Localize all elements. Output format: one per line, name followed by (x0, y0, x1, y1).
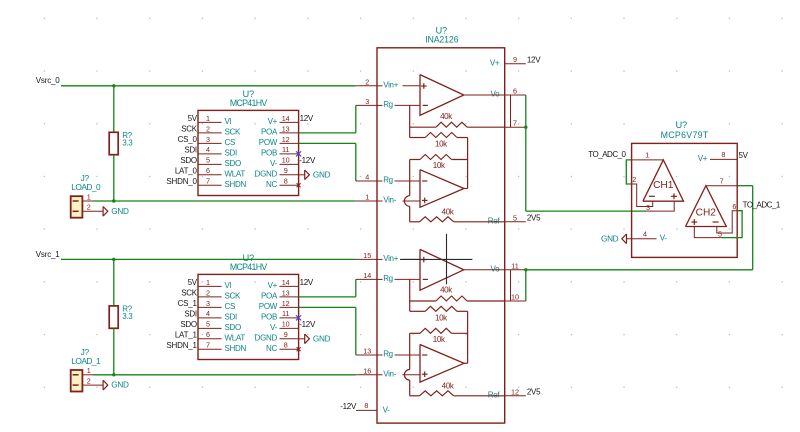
svg-text:4: 4 (643, 229, 647, 238)
svg-text:7: 7 (513, 119, 517, 128)
svg-text:4: 4 (365, 173, 369, 182)
svg-text:40k: 40k (440, 286, 453, 295)
svg-text:GND: GND (313, 170, 331, 179)
svg-text:12: 12 (282, 299, 290, 308)
svg-text:CH1: CH1 (653, 180, 674, 191)
svg-text:DGND: DGND (255, 333, 278, 342)
svg-text:LOAD_0: LOAD_0 (71, 182, 101, 192)
svg-text:TO_ADC_1: TO_ADC_1 (743, 201, 781, 210)
svg-text:SDI: SDI (225, 312, 238, 321)
svg-text:40k: 40k (440, 112, 453, 121)
svg-text:CH2: CH2 (696, 207, 717, 218)
svg-text:6: 6 (206, 166, 210, 175)
svg-text:7: 7 (206, 341, 210, 350)
svg-text:Rg: Rg (383, 176, 393, 185)
svg-text:V-: V- (660, 233, 668, 242)
svg-text:WLAT: WLAT (225, 169, 246, 178)
svg-text:1: 1 (365, 193, 369, 202)
svg-text:GND: GND (313, 334, 331, 343)
svg-text:12V: 12V (300, 278, 314, 287)
svg-text:40k: 40k (442, 207, 455, 216)
svg-text:POB: POB (261, 148, 277, 157)
svg-text:NC: NC (266, 344, 277, 353)
svg-text:SCK: SCK (225, 291, 242, 300)
svg-text:7: 7 (206, 177, 210, 186)
svg-text:11: 11 (282, 145, 289, 154)
svg-text:POA: POA (261, 127, 278, 136)
svg-text:2: 2 (87, 377, 91, 386)
svg-text:LOAD_1: LOAD_1 (71, 356, 101, 366)
svg-text:MCP41HV: MCP41HV (230, 98, 267, 108)
svg-text:V+: V+ (490, 58, 500, 67)
svg-text:NC: NC (266, 180, 277, 189)
svg-text:3: 3 (646, 203, 650, 212)
svg-text:14: 14 (282, 114, 290, 123)
svg-text:SHDN: SHDN (225, 344, 247, 353)
svg-text:12V: 12V (527, 56, 541, 65)
svg-text:V+: V+ (698, 154, 708, 163)
svg-text:SHDN_0: SHDN_0 (166, 177, 197, 186)
svg-text:Vo: Vo (491, 90, 501, 99)
svg-text:SDI: SDI (184, 310, 197, 319)
svg-text:3: 3 (365, 97, 369, 106)
svg-text:V+: V+ (268, 117, 278, 126)
svg-text:7: 7 (720, 176, 724, 185)
svg-text:POB: POB (261, 312, 277, 321)
svg-text:WLAT: WLAT (225, 333, 246, 342)
svg-text:12V: 12V (300, 114, 314, 123)
svg-text:10: 10 (282, 320, 290, 329)
svg-text:TO_ADC_0: TO_ADC_0 (588, 150, 626, 159)
svg-text:CS: CS (225, 138, 236, 147)
svg-text:10: 10 (282, 156, 290, 165)
svg-text:Ref: Ref (488, 216, 501, 225)
svg-text:-12V: -12V (299, 156, 316, 165)
svg-text:13: 13 (282, 288, 290, 297)
svg-text:LAT_0: LAT_0 (175, 166, 198, 175)
svg-text:SDO: SDO (180, 156, 197, 165)
svg-text:1: 1 (645, 150, 649, 159)
svg-text:2V5: 2V5 (527, 214, 541, 223)
svg-text:CS: CS (225, 302, 236, 311)
svg-text:DGND: DGND (255, 169, 278, 178)
svg-text:Vin-: Vin- (383, 369, 397, 378)
svg-text:11: 11 (282, 309, 289, 318)
svg-text:Vo: Vo (491, 264, 501, 273)
svg-text:U?: U? (675, 120, 687, 130)
svg-text:15: 15 (363, 251, 371, 260)
svg-text:V-: V- (270, 159, 278, 168)
svg-text:Vin+: Vin+ (383, 80, 399, 89)
svg-text:GND: GND (601, 234, 619, 243)
svg-text:GND: GND (111, 207, 129, 216)
svg-text:14: 14 (282, 278, 290, 287)
svg-text:Ref: Ref (488, 390, 501, 399)
svg-text:14: 14 (363, 271, 371, 280)
svg-text:2: 2 (206, 288, 210, 297)
svg-text:3: 3 (206, 299, 210, 308)
svg-text:SCK: SCK (181, 125, 198, 134)
svg-text:2V5: 2V5 (527, 388, 541, 397)
svg-text:10k: 10k (435, 140, 448, 149)
svg-text:4: 4 (206, 145, 210, 154)
svg-text:6: 6 (206, 330, 210, 339)
svg-text:13: 13 (363, 347, 371, 356)
svg-text:1: 1 (87, 366, 91, 375)
svg-text:5V: 5V (188, 114, 198, 123)
svg-text:5: 5 (513, 213, 517, 222)
svg-text:8: 8 (364, 401, 368, 410)
svg-text:-12V: -12V (299, 320, 316, 329)
svg-text:SCK: SCK (225, 127, 242, 136)
svg-text:SDO: SDO (180, 320, 197, 329)
svg-text:CS_0: CS_0 (178, 135, 198, 144)
svg-text:1: 1 (87, 192, 91, 201)
svg-text:INA2126: INA2126 (425, 34, 458, 44)
svg-text:13: 13 (282, 124, 290, 133)
svg-text:3.3: 3.3 (122, 312, 133, 321)
svg-text:3: 3 (206, 135, 210, 144)
svg-text:6: 6 (513, 87, 517, 96)
svg-text:5: 5 (206, 156, 210, 165)
svg-text:12: 12 (511, 387, 519, 396)
svg-text:12: 12 (282, 135, 290, 144)
svg-text:1: 1 (206, 114, 210, 123)
svg-text:5: 5 (206, 320, 210, 329)
svg-text:1: 1 (206, 278, 210, 287)
svg-text:Vsrc_0: Vsrc_0 (36, 76, 60, 85)
svg-text:3.3: 3.3 (122, 138, 133, 147)
svg-text:CS_1: CS_1 (178, 299, 198, 308)
svg-text:SCK: SCK (181, 289, 198, 298)
svg-text:16: 16 (363, 366, 371, 375)
svg-text:POW: POW (259, 138, 278, 147)
svg-text:2: 2 (206, 124, 210, 133)
svg-text:10: 10 (511, 293, 519, 302)
svg-text:Vsrc_1: Vsrc_1 (36, 250, 60, 259)
svg-text:MCP6V79T: MCP6V79T (661, 130, 709, 140)
svg-text:SDI: SDI (184, 146, 197, 155)
svg-text:POA: POA (261, 291, 278, 300)
svg-text:Vin-: Vin- (383, 196, 397, 205)
svg-text:5: 5 (718, 229, 722, 238)
svg-text:9: 9 (513, 55, 517, 64)
svg-text:6: 6 (732, 202, 736, 211)
svg-text:MCP41HV: MCP41HV (230, 262, 267, 272)
svg-text:2: 2 (632, 175, 636, 184)
svg-text:POW: POW (259, 302, 278, 311)
svg-text:V-: V- (383, 406, 391, 415)
svg-text:8: 8 (284, 341, 288, 350)
svg-text:SDO: SDO (225, 159, 242, 168)
svg-text:9: 9 (284, 330, 288, 339)
svg-text:Rg: Rg (383, 100, 393, 109)
svg-text:2: 2 (365, 77, 369, 86)
svg-text:GND: GND (111, 381, 129, 390)
svg-text:Vl: Vl (225, 117, 232, 126)
svg-text:V-: V- (270, 323, 278, 332)
svg-text:10k: 10k (433, 161, 446, 170)
svg-text:4: 4 (206, 309, 210, 318)
svg-text:Vl: Vl (225, 281, 232, 290)
svg-text:8: 8 (721, 150, 725, 159)
svg-text:Vin+: Vin+ (383, 254, 399, 263)
svg-text:2: 2 (87, 203, 91, 212)
svg-text:5V: 5V (188, 278, 198, 287)
svg-text:10k: 10k (435, 313, 448, 322)
svg-text:11: 11 (511, 261, 518, 270)
svg-text:5V: 5V (739, 151, 749, 160)
svg-text:-12V: -12V (340, 402, 357, 411)
svg-text:V+: V+ (268, 281, 278, 290)
svg-text:SDO: SDO (225, 323, 242, 332)
svg-text:SHDN: SHDN (225, 180, 247, 189)
svg-text:9: 9 (284, 166, 288, 175)
svg-text:10k: 10k (433, 335, 446, 344)
svg-text:8: 8 (284, 177, 288, 186)
svg-text:Rg: Rg (383, 274, 393, 283)
svg-text:40k: 40k (442, 381, 455, 390)
svg-text:Rg: Rg (383, 350, 393, 359)
svg-text:SHDN_1: SHDN_1 (166, 341, 197, 350)
svg-text:SDI: SDI (225, 148, 238, 157)
svg-text:LAT_1: LAT_1 (175, 330, 198, 339)
